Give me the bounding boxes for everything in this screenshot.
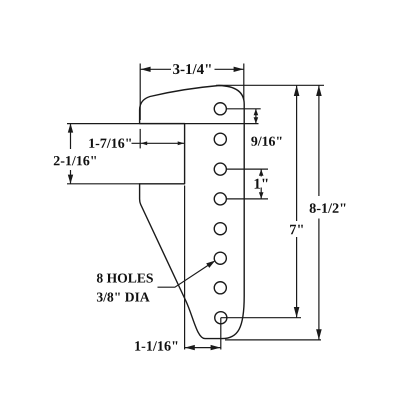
dim 1in ext hole3 [226,168,268,170]
arrow leader 8 holes [206,261,215,268]
leader 8 holes [158,262,214,288]
dim 9/16 line [255,109,257,124]
arrow 1in down [259,192,264,199]
arrow 9/16 up [254,109,259,115]
bottom ext line (part bottom tangent) [225,339,321,341]
arrow 2-1/16 up [68,123,73,132]
fold line [184,186,186,350]
arrow 1-7/16 left [141,141,148,145]
arrow 1in up [259,169,264,176]
arrow 8-1/2 up [316,85,322,96]
dim 1-7/16 stub [139,129,141,149]
arrow 3-1/4 right [234,67,244,72]
part outline [140,86,245,339]
dim 2-1/16 ext top + notch top edge + 9/16 ext : long line [67,123,259,125]
dim 1in line [260,169,262,176]
dim 1in ext hole4 [226,198,268,200]
arrow 1-7/16 right [178,141,185,145]
arrow 9/16 down [254,117,259,123]
label 1-1/16 [135,341,177,351]
arrow 3-1/4 left [141,67,151,72]
dim 3-1/4 ext left [139,64,141,121]
dim 7 line [296,86,298,222]
label 9/16 [251,137,281,146]
top ext line (part top tangent) [216,84,324,86]
label 8-1/2 [310,203,346,213]
label 8 HOLES [97,274,153,283]
label 2-1/16 [54,156,96,165]
label 1-7/16 [89,139,131,148]
hole 5 [214,223,226,235]
label 1in [255,179,268,189]
hole 3 [214,163,226,175]
label 3/8 DIA [97,293,150,302]
arrow 7 down [294,307,300,318]
dim 3-1/4 ext right [243,64,245,101]
hole 2 [214,133,226,145]
dim 2-1/16 ext bottom [67,183,140,185]
dim 7 ext hole8 [221,317,301,319]
holes [214,103,227,324]
dim 1-7/16 line [132,142,185,144]
label 3-1/4 [173,64,211,74]
dim 1-1/16 ext right [220,318,222,350]
dim 2-1/16 line [70,124,72,149]
hole 8 [215,312,227,324]
arrow 1-1/16 left [185,345,195,350]
arrow 2-1/16 down [68,175,73,184]
arrow 8-1/2 down [316,329,322,340]
dim 8-1/2 line [318,86,320,197]
dim 3-1/4 line [141,68,171,70]
hole 1 [214,103,226,115]
label 7in [290,225,303,235]
arrow 1-1/16 right [211,345,221,350]
hole 6 [214,252,226,264]
arrowheads [68,67,322,351]
hole 4 [214,193,226,205]
dim 9/16 ext hole1 [226,108,261,110]
hole 7 [214,282,226,294]
arrow 7 up [294,85,300,96]
dim 1-1/16 line [185,347,221,349]
